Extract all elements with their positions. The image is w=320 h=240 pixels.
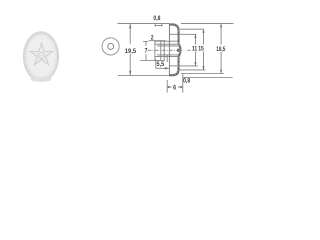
hub bottom line / 7 dim bar (140, 60, 165, 62)
0,8 wall thickness witness lines (155, 25, 163, 27)
dimension line 5,5 (155, 59, 157, 68)
extension line bottom (19,5) (118, 75, 170, 77)
dimension line 2 (149, 40, 166, 42)
svg-text:15: 15 (198, 46, 204, 53)
hub / bore outline (155, 40, 178, 42)
dimension line 19,5 (129, 24, 131, 44)
extension lines for 11 / 15 / 18,5 (181, 23, 234, 25)
svg-text:11: 11 (192, 46, 198, 53)
dimension texts (125, 16, 226, 92)
product photo: knurled knob (23, 31, 59, 82)
rim (face) line (168, 23, 170, 76)
svg-text:19,5: 19,5 (125, 48, 137, 55)
svg-text:2: 2 (151, 35, 154, 42)
star emboss (30, 43, 53, 65)
dimension lines 11 / 15 / 18,5 (195, 34, 197, 44)
sectioned wall band (169, 23, 181, 76)
inner hub circle (108, 43, 114, 49)
dimension 6 extension lines (166, 55, 168, 62)
dimension arrows (129, 24, 222, 89)
centerline (148, 49, 182, 51)
svg-text:5,5: 5,5 (157, 62, 165, 68)
extension line top (19,5 / 0,8) (118, 23, 170, 25)
svg-text:7: 7 (145, 48, 148, 55)
svg-text:0,8: 0,8 (183, 78, 191, 85)
knob body side view (169, 23, 181, 76)
technical drawing lines (118, 24, 234, 93)
dimension line 7 (hub diameter) (143, 41, 148, 43)
svg-text:18,5: 18,5 (216, 46, 225, 53)
svg-text:0,8: 0,8 (153, 16, 161, 23)
outer circle (102, 38, 119, 55)
hatch speckle on band (171, 23, 182, 76)
front view (102, 38, 119, 55)
